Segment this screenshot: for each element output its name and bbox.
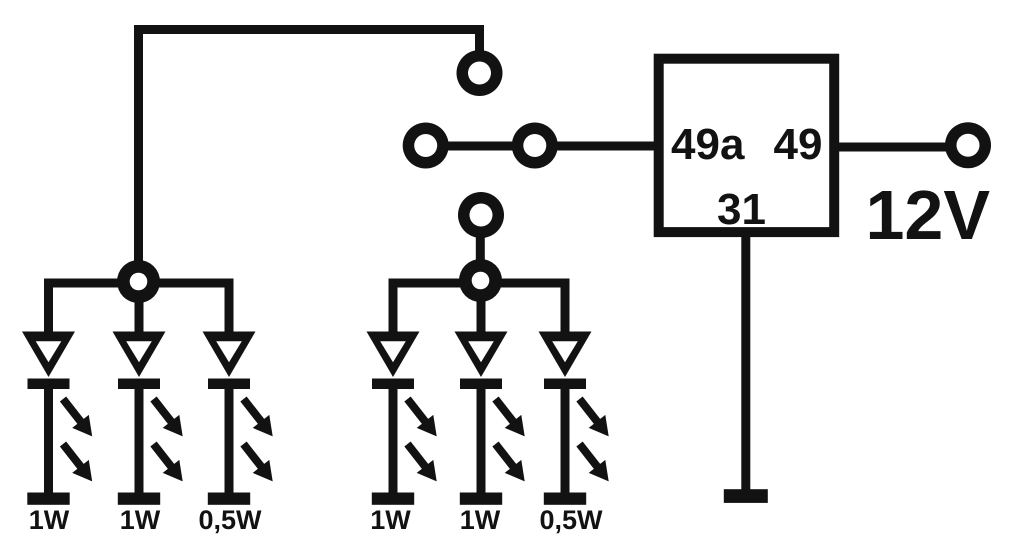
terminal: 12V supply bbox=[945, 122, 991, 168]
terminal: switch movable contact left bbox=[403, 123, 449, 169]
LED D3 (0,5W, left group) bbox=[203, 286, 273, 505]
svg-text:49a: 49a bbox=[671, 120, 745, 169]
LED D4 (1W, middle group) bbox=[367, 286, 437, 505]
terminal: switch lower fixed contact bbox=[458, 192, 504, 238]
terminal: switch movable contact right bbox=[512, 123, 558, 169]
svg-text:0,5W: 0,5W bbox=[198, 505, 262, 535]
LED D6 (0,5W, middle group) bbox=[539, 286, 609, 505]
LED D1 (1W, left group) bbox=[22, 286, 92, 505]
wire: relay terminal 31 down to ground bar bbox=[741, 230, 750, 490]
svg-text:49: 49 bbox=[774, 120, 823, 169]
ground bar (terminal 31 earth connection) bbox=[724, 489, 768, 503]
wire: left riser from lamp junction up and across to switch top contact bbox=[139, 30, 480, 283]
terminal: switch upper fixed contact bbox=[457, 50, 503, 96]
svg-text:1W: 1W bbox=[120, 505, 161, 535]
svg-text:31: 31 bbox=[717, 185, 766, 234]
wire: from lower switch contact down to lamp-group junction bbox=[476, 215, 485, 281]
svg-text:1W: 1W bbox=[370, 505, 411, 535]
node: middle lamp group junction bbox=[459, 259, 502, 302]
svg-text:12V: 12V bbox=[866, 176, 991, 254]
node: left lamp group junction bbox=[117, 260, 160, 303]
wire: switch bar between movable contacts continuing to relay terminal 49a bbox=[425, 142, 656, 151]
LED D2 (1W, left group) bbox=[113, 286, 183, 505]
relay K1 (flasher unit) box bbox=[659, 59, 835, 232]
svg-text:1W: 1W bbox=[460, 505, 501, 535]
wire: relay terminal 49 to 12V supply terminal bbox=[836, 143, 968, 152]
LED D5 (1W, middle group) bbox=[455, 286, 525, 505]
wire: left lamp-group bus bbox=[44, 279, 234, 288]
wire: middle lamp-group bus bbox=[389, 279, 570, 288]
svg-text:1W: 1W bbox=[29, 505, 70, 535]
svg-text:0,5W: 0,5W bbox=[539, 505, 603, 535]
